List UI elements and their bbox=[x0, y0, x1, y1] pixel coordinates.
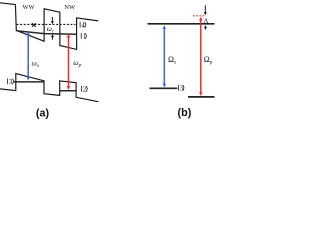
dashed level |4> across wells bbox=[17, 23, 76, 25]
svg-text:NW: NW bbox=[64, 4, 76, 11]
blue Rabi arrow Omega_s (double-headed) bbox=[163, 25, 166, 87]
svg-text:WW: WW bbox=[23, 4, 35, 11]
hole level |3> in wide well bbox=[14, 81, 44, 83]
omega_c splitting marker: upper down-arrow bbox=[51, 17, 54, 24]
blue signal arrow omega_s (double-headed) bbox=[27, 31, 30, 80]
omega_c splitting marker: lower up-arrow bbox=[51, 34, 54, 40]
red Rabi arrow Omega_p (double-headed) bbox=[199, 17, 202, 96]
lower-right level (panel b) bbox=[188, 96, 215, 98]
lower-left level |3> (panel b) bbox=[150, 87, 178, 89]
solid level |1> across wells bbox=[17, 31, 77, 35]
hole level |2> in narrow well bbox=[60, 90, 76, 92]
top common level line bbox=[148, 23, 215, 25]
forbidden-transition cross on dashed level bbox=[32, 23, 36, 27]
panel (a): conduction band edge polyline bbox=[0, 3, 98, 50]
red dashed virtual level bbox=[193, 15, 205, 17]
ket |2> (panel a) bbox=[82, 85, 88, 93]
ket |3> (panel b) bbox=[179, 85, 184, 93]
detuning marker: upper down-arrow bbox=[204, 5, 207, 15]
detuning marker: lower up-arrow bbox=[204, 25, 207, 30]
svg-text:(a): (a) bbox=[36, 108, 50, 120]
svg-text:(b): (b) bbox=[178, 107, 192, 119]
ket |1> bbox=[81, 33, 86, 41]
ket |4> bbox=[80, 21, 86, 29]
red pump arrow omega_p (double-headed) bbox=[67, 34, 70, 90]
ket |3> (panel a) bbox=[8, 78, 14, 86]
panel (a): valence band edge polyline bbox=[0, 74, 98, 102]
svg-text:Δ: Δ bbox=[204, 17, 209, 25]
svg-text:3: 3 bbox=[180, 86, 184, 93]
svg-text:3: 3 bbox=[9, 78, 13, 86]
